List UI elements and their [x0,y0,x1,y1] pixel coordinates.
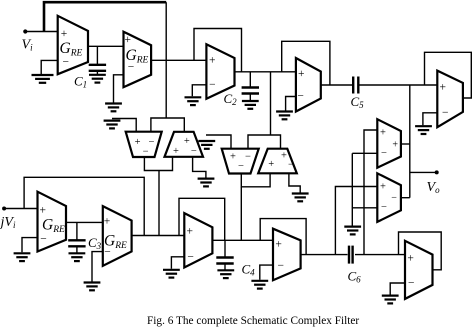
svg-text:C2: C2 [224,91,238,107]
svg-text:−: − [288,159,294,170]
wire left plus hook [112,119,136,132]
svg-text:+: + [440,82,447,94]
ground UA UB minus [344,227,361,235]
svg-text:+: + [209,55,216,67]
svg-text:C4: C4 [242,262,256,278]
wire jVi feedback [24,177,144,235]
wire U7 minus input [92,252,103,282]
wire U7 output [132,235,185,237]
wire U9 feedback rect [260,219,306,255]
wire U10 minus input [390,283,405,295]
wire U6 minus input [22,238,38,253]
wire UB output [401,197,410,199]
capacitor C3 [76,222,78,240]
ground U4 [276,112,293,120]
wire U5 feedback rect [425,52,472,98]
svg-text:+: + [275,239,282,251]
ota trap TL [126,132,162,157]
svg-text:−: − [381,202,387,213]
wire TL bar drop [158,171,160,236]
ground C3 [69,253,86,261]
ota trap TR [165,132,204,157]
svg-text:−: − [391,193,397,204]
svg-text:Fig. 6 The complete Schematic: Fig. 6 The complete Schematic Complex Fi… [147,315,359,327]
wire U1 minus input [41,60,58,74]
wire U5 minus input [423,113,437,125]
op-amp U3 [206,44,234,99]
wire jVi input [4,208,37,210]
svg-text:+: + [392,140,398,151]
ground TR2 minus [292,194,309,202]
wire U8 minus input [171,257,184,269]
wire C6 to U10 [355,254,405,256]
svg-text:−: − [63,57,70,69]
svg-text:+: + [186,225,193,237]
node Vo [435,170,439,174]
ground U5 [415,126,432,134]
wire U2 output to U3 [151,59,206,61]
wire TR2 minus elbow [289,173,300,192]
wire U6 output [66,221,103,223]
wire UA minus wire [352,152,377,154]
wire C5 to U5 [360,84,438,86]
wire right pair feed [270,72,272,135]
wire right plus hook [206,135,231,149]
ground left pair input [104,121,121,129]
svg-text:−: − [148,137,154,148]
svg-text:−: − [128,62,135,74]
svg-text:−: − [191,146,197,157]
node jVi [2,207,6,211]
ground U8 [163,270,180,278]
svg-text:−: − [297,91,304,103]
op-amp U5 [437,71,463,128]
wire minus column to ground [351,153,353,225]
svg-text:C1: C1 [74,74,87,90]
op-amp U10 [405,241,433,299]
svg-text:+: + [184,136,190,147]
wire TL output bar [144,157,172,171]
svg-text:Vo: Vo [427,180,441,195]
svg-text:−: − [408,277,415,289]
svg-text:−: − [104,247,111,259]
ground U9 [251,281,268,289]
svg-text:C6: C6 [348,269,362,285]
svg-text:+: + [281,151,287,162]
ground U7 [84,283,101,291]
ota trap TL2 [222,149,259,174]
svg-text:−: − [245,152,251,163]
capacitor C1 [96,46,98,64]
svg-text:+: + [104,216,111,228]
ground U2 [105,104,122,112]
wire U8 feedback rect [179,198,225,240]
svg-text:jVi: jVi [0,215,16,230]
svg-text:+: + [173,146,179,157]
wire U3 feedback rect [194,29,242,72]
wire right bus [409,85,411,198]
wire U4 feedback rect [282,41,330,85]
wire U10 feedback rect [399,232,442,270]
svg-text:+: + [61,28,68,40]
svg-text:−: − [238,161,244,172]
wire TR minus elbow [193,157,206,178]
wire U9 output [301,254,348,256]
wire U3 minus input [192,85,206,97]
wire top feedback [44,2,166,31]
op-amp U4 [296,58,321,112]
svg-text:+: + [230,152,236,163]
wire UA plus hook [364,130,377,255]
svg-text:+: + [407,252,414,264]
wire U4 minus input [286,97,296,111]
wire UB plus hook [335,187,377,255]
ground C2 [242,101,259,109]
svg-text:−: − [209,79,216,91]
svg-text:C3: C3 [88,235,102,251]
wire U9 minus input [260,265,273,280]
ground U10 [382,296,399,304]
svg-text:−: − [187,251,194,263]
capacitor C6 [348,246,350,264]
svg-text:−: − [40,234,47,246]
svg-text:+: + [380,181,386,192]
svg-text:+: + [135,137,141,148]
svg-text:GRE: GRE [42,217,65,236]
svg-text:Vi: Vi [22,38,34,53]
wire TL2 output bar [241,173,270,187]
wire U1 output to U2 [88,45,124,47]
ground U6 [14,253,31,261]
op-amp G_RE U1 [58,16,88,74]
wire Vo tap [410,171,437,173]
svg-text:C5: C5 [351,94,365,110]
svg-text:+: + [125,34,132,46]
wire vertical x166 from top to cross bar [165,2,167,118]
wire right T-bar [248,135,281,149]
capacitor C4 [224,240,226,257]
svg-text:+: + [40,205,47,217]
svg-text:−: − [381,148,387,159]
wire U8 output [212,239,273,241]
wire UA output [401,143,410,145]
svg-text:+: + [380,127,386,138]
op-amp G_RE U2 [124,32,152,87]
svg-text:−: − [278,260,285,272]
wire U3 output [235,71,296,73]
wire TL2 drop [240,187,242,241]
ground C1 [89,75,106,83]
wire UB minus wire [352,207,377,209]
capacitor C2 [249,72,251,87]
wire U2 minus input [114,75,124,103]
capacitor C5 [352,77,354,94]
op-amp U8 [184,213,212,267]
node Vi [23,29,27,33]
op-amp UB [377,173,401,222]
ground C4 [217,270,234,278]
wire U4 output [321,84,352,86]
ground right pair input [198,141,215,149]
op-amp G_RE U6 [38,192,67,252]
ground U3 [185,97,202,105]
op-amp G_RE U7 [103,206,132,266]
ground TR minus [198,179,215,187]
wire left T-bar [151,118,184,132]
svg-text:+: + [268,159,274,170]
op-amp U9 [273,229,301,281]
ota trap TR2 [258,149,297,174]
op-amp UA [377,119,401,168]
wire Vi input [25,31,57,33]
svg-text:−: − [442,107,449,119]
svg-text:−: − [143,146,149,157]
ground U1 [32,75,54,83]
svg-text:+: + [298,68,305,80]
